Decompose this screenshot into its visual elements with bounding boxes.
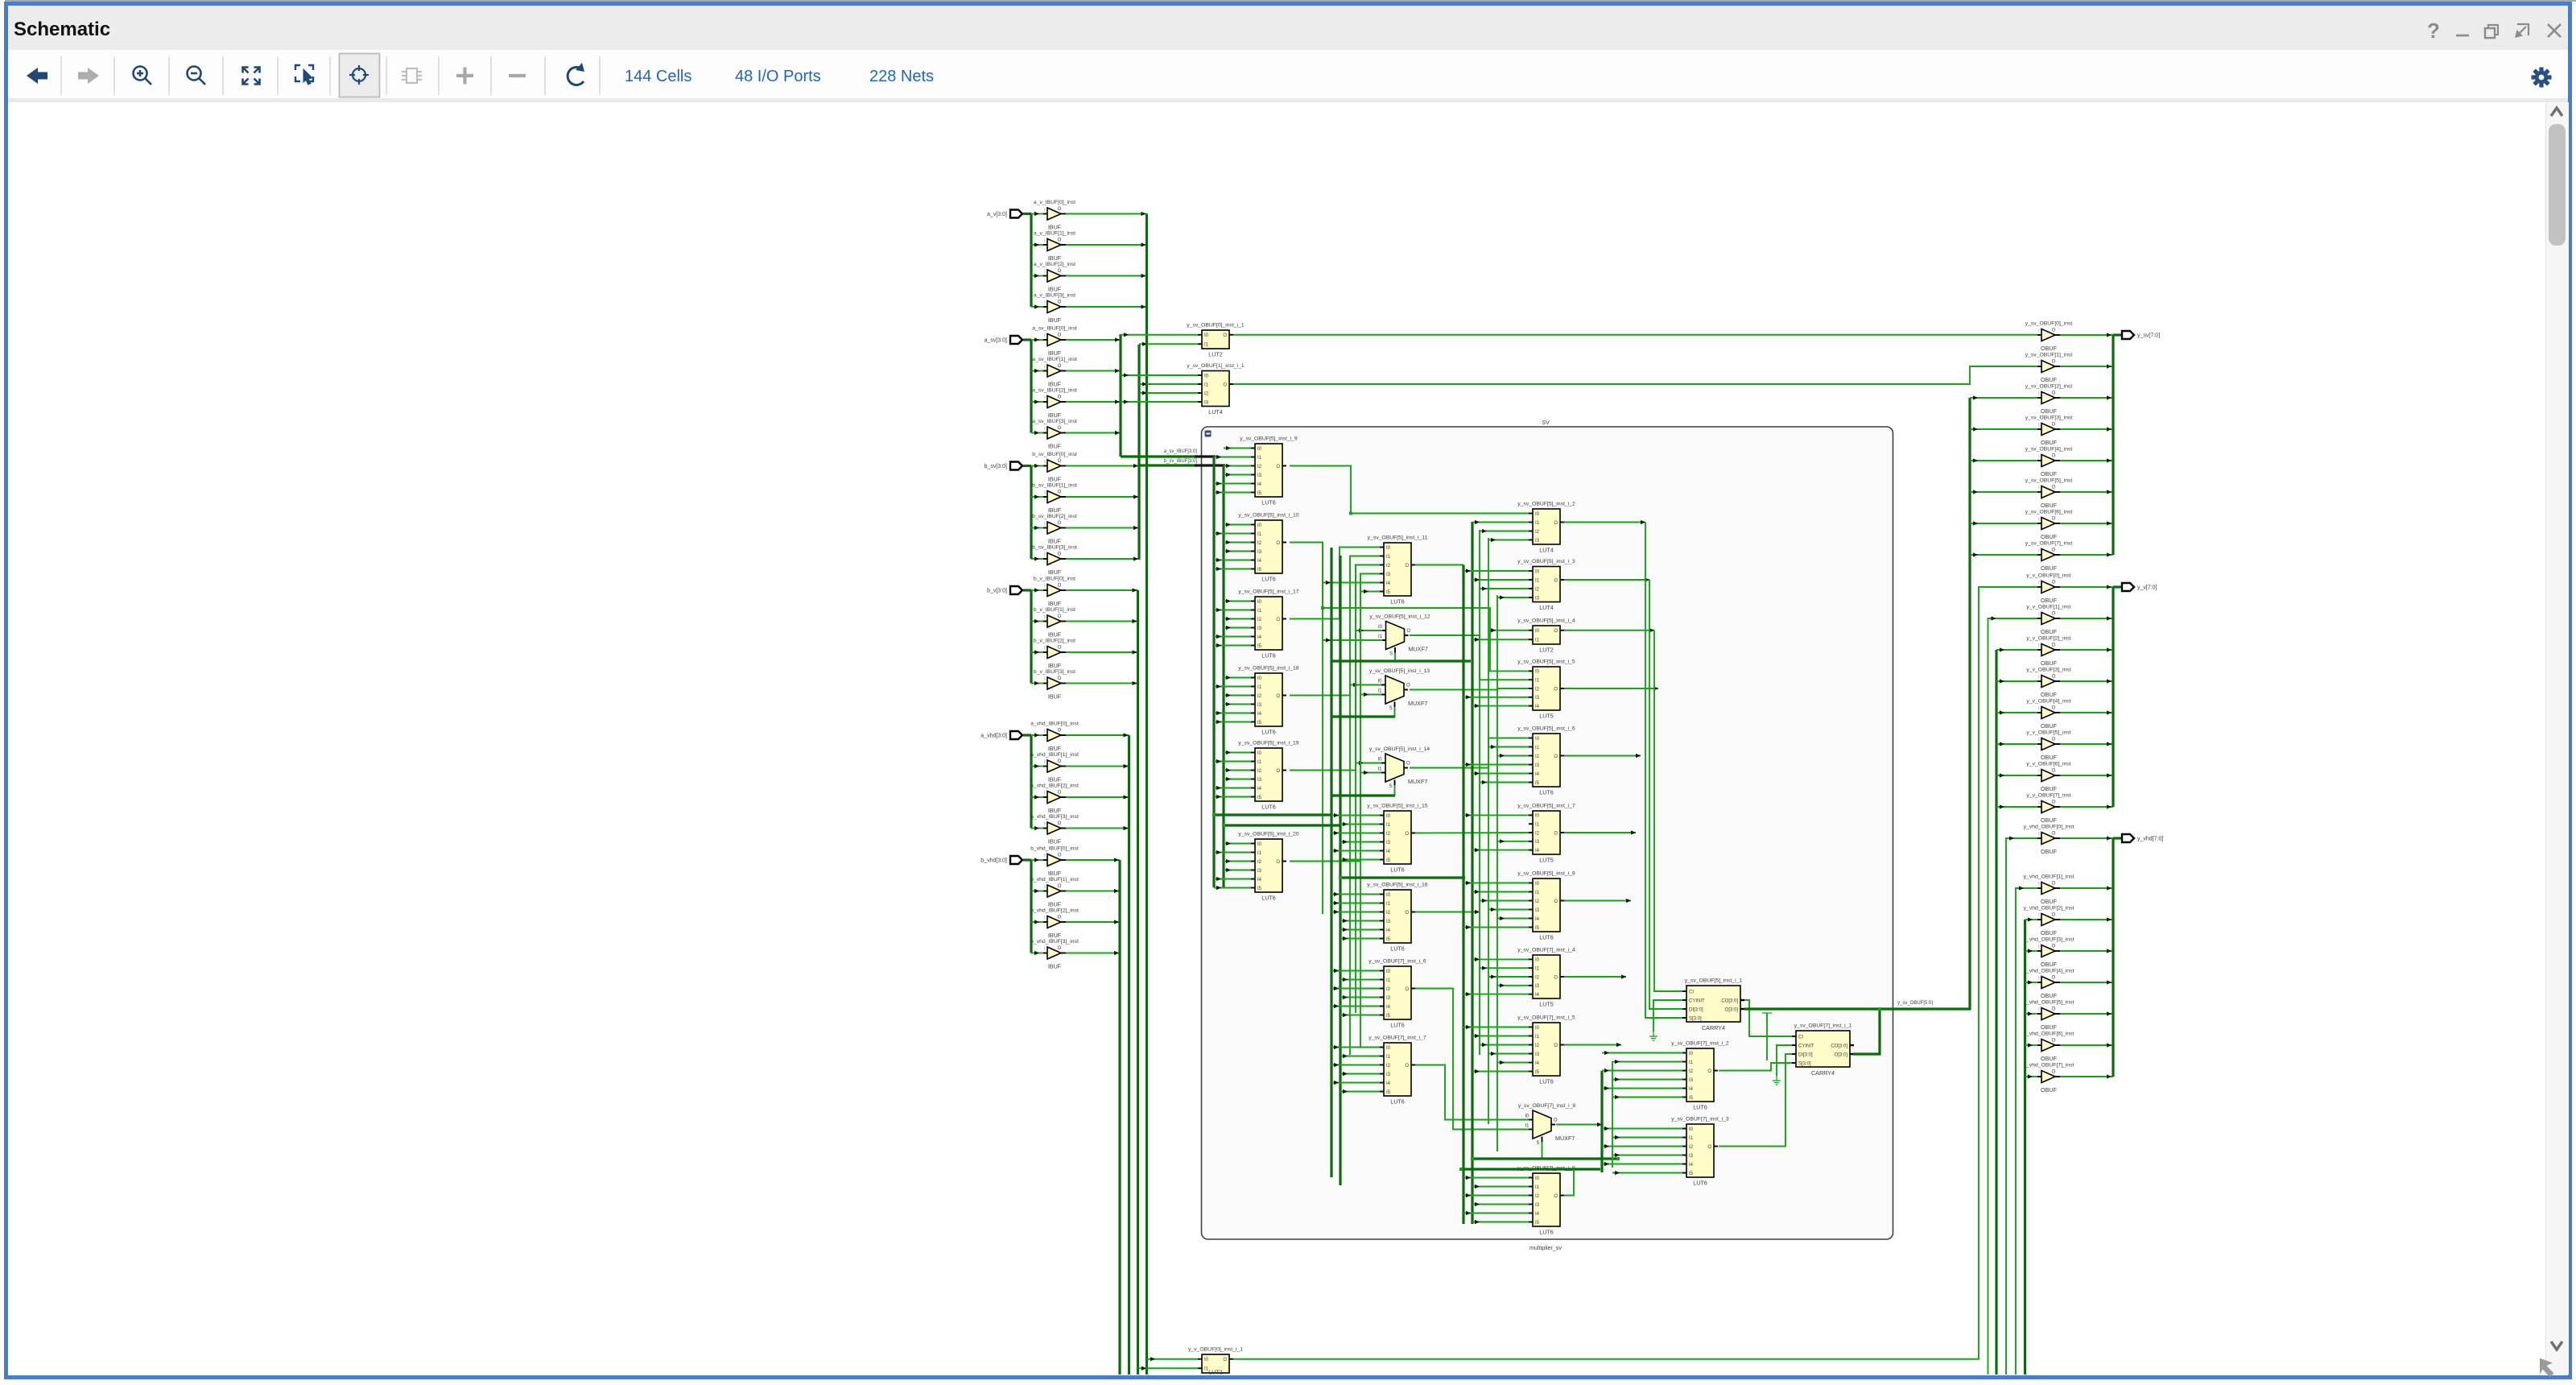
svg-text:S[3:0]: S[3:0]	[1798, 1061, 1811, 1066]
wire a_v to bottom LUT2 I0	[1147, 1358, 1199, 1360]
svg-text:I3: I3	[1535, 908, 1540, 913]
svg-text:OBUF: OBUF	[2041, 502, 2058, 509]
wire to OBUF7 i_7.I4	[1331, 1082, 1380, 1084]
wire to i_19 I4	[1214, 788, 1251, 789]
port y_vhd[7:0]	[2122, 834, 2134, 842]
wire bus y_sv_OBUF[5:0] output	[1744, 398, 1970, 1009]
svg-text:S[3:0]: S[3:0]	[1689, 1016, 1702, 1021]
svg-text:O: O	[1058, 426, 1062, 431]
wire b_vhd_IBUF[3] input	[1031, 953, 1043, 954]
wire net y_v_OBUF[2] tap	[1996, 649, 2037, 651]
wire bus b_sv_IBUF[3:0] vertical	[1137, 345, 1140, 560]
wire to i_9 I3	[1224, 474, 1251, 476]
svg-text:I3: I3	[1535, 1052, 1540, 1057]
svg-text:O: O	[1058, 614, 1062, 619]
svg-text:LUT6: LUT6	[1261, 729, 1276, 736]
svg-text:I2: I2	[1535, 587, 1540, 592]
wire to i_10 I2	[1224, 542, 1251, 544]
wire to OBUF7 i_6.I5	[1340, 1015, 1380, 1016]
LUT6 y_sv_OBUF[5]_inst_i_17	[1238, 589, 1298, 659]
svg-text:I: I	[2038, 581, 2040, 586]
wire to i_19 I3	[1224, 779, 1251, 780]
svg-text:y_sv_OBUF[5]_inst_i_5: y_sv_OBUF[5]_inst_i_5	[1517, 659, 1575, 665]
svg-text:IBUF: IBUF	[1048, 506, 1062, 514]
svg-text:I1: I1	[1386, 823, 1391, 828]
svg-text:a_sv_IBUF[1]_inst: a_sv_IBUF[1]_inst	[1032, 357, 1077, 362]
wire to i_18 I3	[1224, 704, 1251, 705]
LUT6 y_sv_OBUF[7]_inst_i_7	[1368, 1036, 1426, 1106]
wire b_sv[0] to LUT2 I1	[1139, 343, 1198, 345]
svg-text:I: I	[1044, 491, 1046, 496]
wire a_sv_IBUF[1] output to bus	[1066, 370, 1121, 372]
svg-text:I1: I1	[1257, 685, 1262, 690]
svg-text:y_v_OBUF[0]_inst_i_1: y_v_OBUF[0]_inst_i_1	[1188, 1347, 1243, 1353]
svg-text:I: I	[1044, 460, 1046, 465]
wire to OBUF7 i_3.I5	[1612, 1172, 1682, 1174]
svg-text:b_vhd_IBUF[2]_inst: b_vhd_IBUF[2]_inst	[1030, 908, 1079, 914]
LUT6 y_sv_OBUF[5]_inst_i_19	[1238, 741, 1298, 811]
wire to OBUF7 i_9.I5	[1472, 1222, 1529, 1223]
wire a_vhd_IBUF[0] output to bus	[1066, 734, 1129, 736]
svg-text:OBUF: OBUF	[2041, 439, 2058, 446]
svg-text:O: O	[2052, 612, 2056, 617]
svg-text:y_v_OBUF[3]_inst: y_v_OBUF[3]_inst	[2026, 668, 2070, 673]
svg-text:I5: I5	[1257, 644, 1262, 649]
svg-text:I: I	[1044, 854, 1046, 859]
svg-text:I3: I3	[1535, 596, 1540, 601]
svg-text:MUXF7: MUXF7	[1408, 778, 1427, 785]
svg-text:y_sv_OBUF[5]_inst_i_3: y_sv_OBUF[5]_inst_i_3	[1517, 559, 1575, 564]
svg-text:I2: I2	[1257, 694, 1262, 699]
wire b_sv_IBUF[2] output to bus	[1066, 527, 1139, 529]
wire i_12.S down	[1394, 653, 1396, 662]
wire to OBUF7 i_3.I0	[1602, 1128, 1682, 1130]
svg-text:O: O	[2052, 1007, 2056, 1012]
wire to i_10 I3	[1224, 551, 1251, 552]
wire vertical x1849	[1488, 538, 1489, 1124]
IBUF a_vhd_IBUF[3]_inst	[1030, 814, 1079, 845]
wire to OBUF7 i_9.I0	[1463, 1177, 1529, 1179]
wire to i_17 I1	[1214, 610, 1251, 611]
svg-text:y_sv[7:0]: y_sv[7:0]	[2137, 333, 2160, 339]
svg-text:OBUF: OBUF	[2041, 1086, 2058, 1094]
svg-text:OBUF: OBUF	[2041, 785, 2058, 792]
wire to i_15.I3	[1340, 841, 1380, 843]
wire a_v_IBUF[2] output to bus	[1066, 275, 1147, 277]
wire net i_5.O	[1564, 688, 1658, 689]
svg-text:IBUF: IBUF	[1048, 662, 1062, 669]
wire a_sv_IBUF[3] output to bus	[1066, 432, 1121, 434]
IBUF a_sv_IBUF[0]_inst	[1032, 326, 1077, 358]
wire vertical x1990	[1600, 1071, 1603, 1172]
svg-text:OBUF: OBUF	[2041, 754, 2058, 761]
svg-text:I2: I2	[1535, 530, 1540, 535]
svg-text:I0: I0	[1535, 629, 1540, 634]
svg-text:O: O	[1058, 333, 1062, 338]
svg-text:O: O	[1405, 987, 1409, 992]
wire to i_3.I3	[1497, 597, 1529, 598]
wire net OBUF7 i_9.O	[1564, 1169, 1574, 1196]
svg-text:y_sv_OBUF[5]_inst_i_7: y_sv_OBUF[5]_inst_i_7	[1517, 804, 1575, 809]
svg-text:I: I	[2038, 914, 2040, 919]
svg-text:I: I	[2038, 613, 2040, 618]
wire net i_17.O to i_11.I0	[1290, 548, 1380, 619]
svg-text:O: O	[2052, 945, 2056, 949]
svg-text:O: O	[1058, 854, 1062, 858]
wire net i_19.O to i_11.I2	[1290, 565, 1380, 771]
wire to i_20 I3	[1224, 870, 1251, 871]
svg-text:I: I	[1044, 947, 1046, 952]
wire a_sv[3:0] port fanout bus	[1030, 340, 1032, 433]
wire to i_19 I1	[1214, 761, 1251, 763]
wire net y_sv_OBUF[4] tap	[1970, 460, 2037, 461]
wire to i_6.I4	[1472, 773, 1529, 775]
svg-text:I4: I4	[1689, 1163, 1694, 1168]
svg-text:I: I	[1044, 916, 1046, 921]
wire to i_8.I4	[1497, 918, 1529, 920]
wire to OBUF7 i_4.I2	[1488, 976, 1529, 978]
wire bus mux select S net y890	[1331, 715, 1395, 717]
svg-text:y_sv_OBUF[1]_inst: y_sv_OBUF[1]_inst	[2025, 353, 2073, 358]
svg-text:b_sv_IBUF[2]_inst: b_sv_IBUF[2]_inst	[1032, 514, 1077, 519]
wire bus a_sv_IBUF[3:0] into SV	[1121, 455, 1196, 457]
wire a_sv_IBUF[3] input	[1031, 432, 1043, 434]
svg-text:O: O	[1554, 975, 1558, 980]
svg-text:CI: CI	[1689, 990, 1694, 994]
svg-text:I3: I3	[1535, 984, 1540, 989]
svg-text:y_sv_OBUF[5]_inst_i_14: y_sv_OBUF[5]_inst_i_14	[1369, 746, 1430, 752]
wire to i_8.I5	[1463, 927, 1529, 928]
svg-text:I: I	[1044, 334, 1046, 339]
IBUF a_vhd_IBUF[0]_inst	[1030, 721, 1079, 753]
LUT6 y_sv_OBUF[5]_inst_i_16	[1367, 883, 1427, 953]
svg-text:OBUF: OBUF	[2041, 898, 2058, 905]
svg-text:O: O	[2052, 832, 2056, 837]
collapse button of SV	[1205, 431, 1212, 437]
wire b_sv_IBUF[0] output to bus	[1066, 465, 1139, 467]
svg-text:I3: I3	[1257, 869, 1262, 874]
wire to OBUF7 i_3.I1	[1612, 1137, 1682, 1139]
svg-text:I0: I0	[1204, 333, 1209, 338]
svg-text:a_sv_IBUF[0]_inst: a_sv_IBUF[0]_inst	[1032, 326, 1077, 332]
wire b_vhd_IBUF[1] input	[1031, 891, 1043, 892]
wire to i_15.I2	[1331, 833, 1380, 834]
svg-text:O: O	[1223, 333, 1227, 338]
wire net y_vhd_OBUF[7] tap	[2025, 1076, 2038, 1077]
svg-text:I4: I4	[1386, 850, 1391, 854]
wire to OBUF7 i_6.I2	[1331, 988, 1380, 990]
svg-text:I: I	[2038, 644, 2040, 649]
wire bus y_sv[7:0] collector	[2112, 335, 2114, 555]
svg-text:O: O	[1554, 1194, 1558, 1199]
wire b_v[3:0] port fanout bus	[1030, 590, 1032, 684]
svg-text:I3: I3	[1386, 1073, 1391, 1077]
wire to i_17 I0	[1224, 601, 1251, 602]
svg-text:y_vhd_OBUF[4]_inst: y_vhd_OBUF[4]_inst	[2024, 969, 2074, 974]
svg-text:I1: I1	[1535, 746, 1540, 750]
wire to i_9 I1	[1214, 457, 1251, 458]
svg-text:I0: I0	[1535, 882, 1540, 887]
wire to OBUF7 i_6.I3	[1340, 997, 1380, 998]
wire b_sv_IBUF[1] input	[1031, 496, 1043, 498]
wire net y_v_OBUF[5] tap	[1996, 743, 2037, 745]
svg-text:OBUF: OBUF	[2041, 722, 2058, 730]
svg-text:LUT6: LUT6	[1390, 598, 1405, 606]
svg-text:CO[3:0]: CO[3:0]	[1831, 1044, 1847, 1048]
svg-text:y_sv_OBUF[4]_inst: y_sv_OBUF[4]_inst	[2025, 447, 2073, 453]
svg-text:S: S	[1389, 784, 1392, 789]
OBUF y_sv_OBUF[4]_inst	[2025, 447, 2073, 478]
svg-text:CO[3:0]: CO[3:0]	[1721, 998, 1738, 1003]
svg-text:I0: I0	[1386, 1046, 1391, 1051]
svg-text:I0: I0	[1535, 737, 1540, 742]
svg-text:y_v_OBUF[1]_inst: y_v_OBUF[1]_inst	[2026, 605, 2070, 610]
port b_vhd[3:0]	[1010, 856, 1022, 864]
wire net i_11.O to bus x1818	[1415, 564, 1463, 566]
svg-text:CI: CI	[1798, 1035, 1803, 1040]
wire to i_10 I4	[1214, 560, 1251, 561]
svg-text:y_vhd_OBUF[1]_inst: y_vhd_OBUF[1]_inst	[2024, 874, 2074, 880]
svg-text:OBUF: OBUF	[2041, 848, 2058, 855]
svg-text:I1: I1	[1386, 902, 1391, 907]
wire net y_vhd_OBUF[1] from below	[2016, 888, 2037, 1375]
svg-text:b_v_IBUF[0]_inst: b_v_IBUF[0]_inst	[1034, 577, 1075, 582]
svg-text:I: I	[1044, 270, 1046, 275]
wire to i_19 I2	[1224, 770, 1251, 771]
svg-text:LUT5: LUT5	[1539, 713, 1554, 720]
wire to i_3.I2	[1480, 588, 1529, 589]
wire to i_13.I1	[1360, 694, 1381, 696]
svg-text:y_sv_OBUF[6]_inst: y_sv_OBUF[6]_inst	[2025, 510, 2073, 515]
svg-text:OBUF: OBUF	[2041, 1023, 2058, 1031]
svg-text:I5: I5	[1257, 568, 1262, 573]
wire y_v_OBUF[3] output to port bus	[2060, 680, 2113, 682]
wire b_v[3:0] port stub	[1023, 589, 1031, 591]
svg-text:O: O	[1058, 459, 1062, 464]
svg-text:LUT6: LUT6	[1261, 804, 1276, 811]
svg-text:I0: I0	[1535, 512, 1540, 517]
svg-text:IBUF: IBUF	[1048, 411, 1062, 419]
svg-text:I4: I4	[1535, 849, 1540, 854]
svg-text:I5: I5	[1257, 721, 1262, 726]
port a_v[3:0]	[1010, 210, 1022, 218]
svg-text:I1: I1	[1386, 555, 1391, 560]
wire b_sv_IBUF[1] output to bus	[1066, 496, 1139, 498]
wire to i_14.I1	[1360, 772, 1381, 774]
wire net i_13.O to i_5.I2	[1410, 688, 1529, 690]
wire y_sv_OBUF[3] output to port bus	[2060, 428, 2113, 430]
svg-text:y_sv_OBUF[7]_inst_i_8: y_sv_OBUF[7]_inst_i_8	[1518, 1103, 1576, 1109]
svg-text:I: I	[2038, 392, 2040, 397]
wire bus b_sv_IBUF[3:0] into SV	[1139, 464, 1196, 466]
svg-text:LUT6: LUT6	[1693, 1180, 1707, 1187]
wire y_sv_OBUF[6] output to port bus	[2060, 523, 2113, 524]
svg-text:O: O	[1058, 300, 1062, 305]
wire a_vhd_IBUF[2] output to bus	[1066, 796, 1129, 798]
wire to OBUF7 i_2.I5	[1612, 1097, 1682, 1098]
svg-text:I3: I3	[1257, 473, 1262, 478]
IBUF a_vhd_IBUF[1]_inst	[1030, 752, 1079, 783]
wire to i_20 I5	[1214, 887, 1251, 889]
svg-text:IBUF: IBUF	[1048, 538, 1062, 545]
wire to i_9 I2	[1224, 465, 1251, 467]
svg-text:I3: I3	[1535, 696, 1540, 701]
svg-text:I: I	[2038, 1071, 2040, 1076]
wire to i_5.I4	[1472, 705, 1529, 707]
wire b_v_IBUF[0] output to bus	[1066, 589, 1138, 591]
wire b_vhd[3:0] port fanout bus	[1030, 860, 1032, 953]
wire to OBUF7 i_2.I4	[1602, 1088, 1682, 1089]
svg-text:O: O	[2052, 976, 2056, 981]
wire net y_sv_OBUF[0] from LUT2	[1233, 334, 2037, 336]
wire OBUF7 i_8.S down	[1542, 1142, 1543, 1159]
svg-text:O: O	[1554, 831, 1558, 836]
wire b_vhd_IBUF[2] input	[1031, 921, 1043, 923]
svg-text:y_sv_OBUF[0]_inst_i_1: y_sv_OBUF[0]_inst_i_1	[1187, 323, 1245, 329]
svg-text:multiplier_sv: multiplier_sv	[1529, 1244, 1562, 1251]
wire b_vhd_IBUF[1] output to bus	[1066, 891, 1120, 892]
svg-text:I: I	[2038, 361, 2040, 366]
wire net i_2.O	[1564, 522, 1645, 523]
svg-text:a_vhd_IBUF[0]_inst: a_vhd_IBUF[0]_inst	[1030, 721, 1079, 727]
wire to i_20 I0	[1224, 843, 1251, 845]
wire net y_sv_OBUF[3] tap	[1970, 428, 2037, 430]
svg-text:O: O	[1405, 832, 1409, 837]
wire to OBUF7 i_7.I2	[1331, 1065, 1380, 1066]
svg-text:CYINIT: CYINIT	[1689, 998, 1705, 1003]
svg-text:LUT2: LUT2	[1539, 647, 1554, 654]
wire net i_7.O	[1564, 832, 1636, 833]
wire y_vhd_OBUF[7] output to port bus	[2060, 1076, 2113, 1077]
svg-text:O: O	[1223, 1358, 1227, 1362]
wire a_vhd_IBUF[2] input	[1031, 796, 1043, 798]
svg-text:I5: I5	[1535, 781, 1540, 786]
svg-text:I0: I0	[1689, 1127, 1694, 1132]
svg-text:I: I	[1044, 553, 1046, 558]
svg-text:I1: I1	[1535, 679, 1540, 684]
LUT6 y_sv_OBUF[5]_inst_i_10	[1238, 513, 1298, 583]
svg-text:I0: I0	[1535, 958, 1540, 963]
svg-text:y_sv_OBUF[5]_inst_i_18: y_sv_OBUF[5]_inst_i_18	[1238, 666, 1298, 672]
svg-text:I1: I1	[1386, 978, 1391, 983]
OBUF y_v_OBUF[2]_inst	[2026, 636, 2070, 668]
LUT6 y_sv_OBUF[5]_inst_i_11	[1368, 535, 1428, 606]
wire bus select y1452	[1461, 1168, 1600, 1170]
wire to OBUF7 i_5.I4	[1497, 1062, 1529, 1064]
svg-text:y_sv_OBUF[7]_inst_i_7: y_sv_OBUF[7]_inst_i_7	[1368, 1036, 1426, 1041]
IBUF b_vhd_IBUF[1]_inst	[1030, 877, 1079, 908]
LUT6 y_sv_OBUF[5]_inst_i_20	[1238, 832, 1298, 902]
svg-text:y_sv_OBUF[7]_inst: y_sv_OBUF[7]_inst	[2025, 541, 2073, 547]
wire to OBUF7 i_5.I5	[1472, 1071, 1529, 1073]
wire b_v_IBUF[0] input	[1031, 589, 1043, 591]
svg-text:I2: I2	[1257, 618, 1262, 622]
svg-text:O: O	[2052, 675, 2056, 680]
svg-text:I1: I1	[1535, 1185, 1540, 1190]
wire net y_sv_OBUF[1] from LUT4	[1233, 366, 2037, 384]
svg-text:I4: I4	[1535, 705, 1540, 709]
wire a_sv_IBUF[0] input	[1031, 339, 1043, 341]
svg-text:y_sv_OBUF[0]_inst: y_sv_OBUF[0]_inst	[2025, 321, 2073, 327]
svg-text:I1: I1	[1378, 635, 1383, 639]
svg-text:IBUF: IBUF	[1048, 476, 1062, 483]
svg-text:I0: I0	[1386, 893, 1391, 898]
wire net i_14.O to i_6.I0	[1410, 738, 1529, 768]
svg-text:CYINIT: CYINIT	[1798, 1044, 1814, 1048]
LUT5 y_sv_OBUF[5]_inst_i_7	[1517, 804, 1575, 864]
wire to OBUF7 i_7.I1	[1340, 1056, 1380, 1057]
svg-text:a_vhd_IBUF[2]_inst: a_vhd_IBUF[2]_inst	[1030, 783, 1079, 789]
svg-text:O: O	[1405, 1064, 1409, 1069]
wire y_vhd_OBUF[6] output to port bus	[2060, 1044, 2113, 1046]
svg-text:I0: I0	[1377, 758, 1382, 763]
port b_sv[3:0]	[1010, 462, 1022, 470]
svg-text:I: I	[1044, 365, 1046, 370]
wire i_14.S down	[1394, 785, 1396, 796]
wire to i_5.I3	[1463, 697, 1529, 698]
svg-text:y_v_OBUF[7]_inst: y_v_OBUF[7]_inst	[2026, 793, 2070, 799]
mux MUXF7 y_sv_OBUF[7]_inst_i_8	[1518, 1103, 1576, 1146]
wire to i_17 I3	[1224, 627, 1251, 629]
wire to i_12.I1	[1323, 639, 1381, 641]
svg-text:I2: I2	[1689, 1069, 1694, 1074]
wire bus vertical x1829	[1471, 522, 1473, 1224]
svg-text:I: I	[1044, 885, 1046, 890]
svg-text:O: O	[1554, 578, 1558, 583]
OBUF y_sv_OBUF[2]_inst	[2025, 384, 2073, 415]
wire bus b_v_IBUF[3:0] vertical	[1137, 590, 1139, 1375]
wire net OBUF7 i_8.O	[1556, 1124, 1602, 1126]
wire to OBUF7 i_3.I3	[1612, 1155, 1682, 1156]
wire net i_12.O to i_5.I1	[1410, 635, 1529, 680]
svg-text:O: O	[1276, 769, 1280, 774]
IBUF b_vhd_IBUF[3]_inst	[1030, 939, 1079, 970]
wire bus mux select S net y821	[1331, 659, 1471, 662]
port y_sv[7:0]	[2122, 331, 2134, 339]
wire bus a_sv_IBUF[3:0] SV boundary	[1195, 455, 1216, 457]
wire net to CARRY4 CI	[1654, 630, 1682, 991]
svg-text:I0: I0	[1257, 751, 1262, 756]
svg-text:O: O	[1406, 762, 1410, 767]
svg-text:OBUF: OBUF	[2041, 992, 2058, 999]
svg-text:I0: I0	[1257, 600, 1262, 605]
svg-text:a_sv_IBUF[3:0]: a_sv_IBUF[3:0]	[1164, 449, 1198, 454]
svg-text:b_v_IBUF[3]_inst: b_v_IBUF[3]_inst	[1034, 669, 1075, 675]
wire to i_6.I2	[1497, 755, 1529, 757]
wire a_vhd[3:0] port stub	[1023, 734, 1031, 736]
svg-text:y_v_OBUF[4]_inst: y_v_OBUF[4]_inst	[2026, 699, 2070, 705]
svg-text:O: O	[2052, 486, 2056, 490]
svg-text:IBUF: IBUF	[1048, 870, 1062, 877]
svg-text:I: I	[2038, 1040, 2040, 1044]
svg-text:LUT6: LUT6	[1539, 1078, 1554, 1085]
svg-text:I0: I0	[1257, 523, 1262, 528]
svg-text:OBUF: OBUF	[2041, 691, 2058, 698]
wire net y_sv_OBUF[5] tap	[1970, 491, 2037, 493]
wire to i_11.I4	[1323, 582, 1380, 584]
svg-text:O: O	[1058, 269, 1062, 274]
svg-text:I: I	[1044, 301, 1046, 306]
wire to i_18 I2	[1224, 695, 1251, 697]
svg-text:IBUF: IBUF	[1048, 807, 1062, 814]
svg-text:I1: I1	[1257, 609, 1262, 614]
svg-text:b_sv_IBUF[1]_inst: b_sv_IBUF[1]_inst	[1032, 483, 1077, 489]
svg-text:I3: I3	[1386, 841, 1391, 845]
OBUF y_vhd_OBUF[7]_inst	[2024, 1063, 2074, 1094]
svg-text:IBUF: IBUF	[1048, 600, 1062, 607]
wire bus y_vhd[7:0] collector	[2112, 838, 2114, 1077]
wire to OBUF7 i_2.I1	[1612, 1061, 1682, 1063]
